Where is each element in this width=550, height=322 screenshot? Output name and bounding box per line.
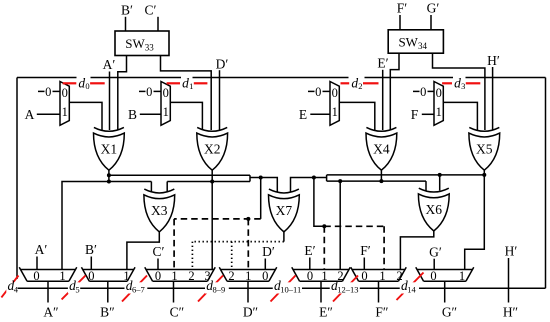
svg-text:X5: X5 — [476, 141, 493, 156]
wire: feedback frame right edge — [545, 78, 547, 289]
junction on right dashed net — [322, 224, 326, 228]
wire D' tap into X2 — [219, 70, 221, 130]
svg-text:6–7: 6–7 — [132, 285, 145, 295]
svg-text:D′: D′ — [262, 244, 275, 259]
svg-text:5: 5 — [75, 285, 79, 295]
wire B' to SW33 — [125, 17, 127, 31]
svg-text:X4: X4 — [373, 141, 390, 156]
select line d1 (red) — [167, 75, 208, 91]
xor gate X3 — [144, 189, 175, 232]
svg-text:G′: G′ — [429, 244, 442, 259]
wire X6 left input — [425, 181, 427, 190]
svg-text:0: 0 — [163, 86, 169, 100]
wire bus to mux E input 2 — [339, 181, 341, 269]
svg-text:14: 14 — [407, 285, 416, 295]
svg-text:1: 1 — [62, 105, 68, 119]
wire E' into mux E input 0 — [309, 258, 311, 270]
svg-text:A′: A′ — [35, 242, 48, 257]
svg-text:0: 0 — [85, 81, 89, 91]
wire: feedback frame left edge — [16, 78, 18, 280]
wire SW33 right output to X2 (net D') — [161, 56, 212, 131]
wire A' tap into X1 — [109, 72, 111, 131]
select slash (red) at output mux 5 — [271, 276, 296, 302]
junction X4 out / lower bus — [379, 179, 383, 183]
wire F into M4 — [422, 113, 434, 115]
svg-text:1: 1 — [379, 269, 385, 283]
dashed wire to mux F input 1 — [383, 226, 385, 269]
junction on left dashed net — [246, 217, 250, 221]
wire D' into mux D input 0 — [264, 259, 266, 270]
svg-text:A: A — [25, 107, 35, 122]
wire tap down (right dashed net) — [314, 178, 324, 227]
select slash (red) at output mux 2 — [62, 276, 86, 300]
svg-text:X7: X7 — [276, 203, 293, 218]
wire X3 output to mux B input 1 — [127, 232, 159, 270]
svg-text:d: d — [182, 75, 189, 90]
wire X4 output — [380, 170, 382, 181]
bus upper line (right) — [327, 174, 485, 176]
mux M2 (feeding X2) — [161, 82, 170, 126]
wire A into M1 — [37, 113, 60, 115]
svg-text:1: 1 — [436, 105, 442, 119]
svg-text:X3: X3 — [151, 203, 168, 218]
svg-text:F′: F′ — [397, 1, 408, 16]
control label d8-9 — [205, 278, 228, 295]
wire M3 output to X4 — [339, 102, 375, 130]
output mux C'' (4:1) — [145, 267, 216, 281]
select line d3 (red) — [442, 75, 480, 91]
svg-text:F: F — [411, 107, 419, 122]
wire SW34 right output to X5 (net H') — [433, 53, 485, 130]
svg-text:1: 1 — [321, 269, 327, 283]
svg-text:2: 2 — [337, 269, 343, 283]
control label d4 — [6, 278, 18, 295]
svg-text:G″: G″ — [442, 305, 457, 320]
xor gate X2 — [197, 127, 228, 170]
svg-text:0: 0 — [420, 85, 426, 99]
wire M4 output to X5 — [443, 102, 477, 130]
wire F' into mux F input 0 — [363, 258, 365, 270]
svg-text:0: 0 — [33, 269, 39, 283]
svg-text:10–11: 10–11 — [280, 285, 301, 295]
control label d5 — [68, 278, 80, 295]
svg-text:0: 0 — [361, 269, 367, 283]
bus lower line (right) — [327, 180, 426, 182]
svg-text:E′: E′ — [304, 243, 315, 258]
junction X1 out / upper bus — [107, 173, 111, 177]
svg-text:X2: X2 — [204, 141, 221, 156]
svg-text:F″: F″ — [375, 305, 388, 320]
junction mux E feed tap — [338, 179, 342, 183]
svg-text:2: 2 — [188, 269, 194, 283]
select slash (red) at output mux 7 — [397, 273, 424, 301]
wire mux C output — [173, 281, 175, 302]
junction X1 out / lower bus — [107, 180, 111, 184]
dotted wire to mux C input 2 — [191, 242, 193, 270]
junction X6 right input tap — [438, 173, 442, 177]
svg-text:1: 1 — [189, 81, 193, 91]
wire mux B output — [107, 281, 109, 302]
control label d10-11 — [273, 278, 302, 295]
wire E' tap into X4 — [382, 70, 384, 130]
wire H' tap into X5 — [492, 67, 494, 130]
svg-text:H″: H″ — [503, 305, 518, 320]
output mux E'' (3:1) — [292, 267, 351, 281]
junction X2 out / lower bus — [210, 180, 214, 184]
wire mux A output — [47, 281, 49, 302]
svg-text:0: 0 — [45, 85, 51, 99]
svg-text:8–9: 8–9 — [213, 285, 226, 295]
dashed wire to mux E input 1 — [323, 226, 325, 269]
bus left cap — [249, 175, 251, 181]
svg-text:A″: A″ — [43, 305, 58, 320]
bus lower line (left) cont. — [167, 181, 250, 183]
svg-text:H′: H′ — [505, 243, 518, 258]
svg-text:C″: C″ — [170, 305, 185, 320]
svg-text:D″: D″ — [243, 305, 258, 320]
svg-text:d: d — [351, 75, 358, 90]
svg-text:12–13: 12–13 — [337, 285, 358, 295]
svg-text:0: 0 — [262, 269, 268, 283]
svg-text:H′: H′ — [487, 53, 500, 68]
output mux D'' (3:1) — [219, 267, 277, 281]
svg-text:D′: D′ — [216, 56, 229, 71]
svg-text:E: E — [299, 107, 307, 122]
wire B' into mux B input 0 — [90, 257, 92, 270]
wire X2 output to mux C input 3 — [211, 170, 213, 269]
junction tap to dashed net (right) — [312, 176, 316, 180]
dotted wire horizontal — [192, 241, 284, 243]
constant 0 into M2 — [139, 90, 146, 92]
output mux B'' (2:1) — [81, 267, 135, 281]
svg-text:0: 0 — [88, 269, 94, 283]
wire G' into mux G input 0 — [433, 259, 435, 270]
svg-text:1: 1 — [245, 269, 251, 283]
svg-text:X6: X6 — [426, 202, 443, 217]
svg-text:E′: E′ — [377, 55, 388, 70]
svg-text:G′: G′ — [427, 1, 440, 16]
svg-text:0: 0 — [315, 85, 321, 99]
output mux F'' (3:1) — [351, 267, 407, 281]
svg-text:X1: X1 — [101, 141, 118, 156]
xor gate X4 — [366, 127, 397, 170]
output mux A'' (2:1) — [19, 267, 77, 281]
wire X7 right input from right bus — [291, 178, 327, 192]
wire X5 output to mux G input 1 — [465, 170, 485, 270]
wire mux E output — [320, 281, 322, 302]
wire X7 output stub — [283, 231, 285, 242]
svg-text:3: 3 — [461, 81, 465, 91]
svg-text:1: 1 — [59, 269, 65, 283]
mux M4 (feeding X5) — [434, 82, 443, 126]
svg-text:B″: B″ — [100, 305, 115, 320]
svg-text:E″: E″ — [319, 305, 333, 320]
wire X3 right input — [166, 182, 168, 192]
wire G' to SW34 — [430, 15, 432, 30]
constant 0 into M4 — [413, 90, 420, 92]
select slash (red) at output mux 6 — [333, 276, 358, 302]
svg-text:C′: C′ — [153, 244, 165, 259]
dotted wire to mux D input 2 — [231, 242, 233, 270]
switch box SW34 — [388, 30, 443, 53]
wire X1 output — [108, 170, 110, 181]
svg-text:1: 1 — [163, 105, 169, 119]
bus lower line (left) from mux A column — [62, 182, 151, 270]
wire mux D output — [247, 281, 249, 302]
wire A' into mux A input 0 — [36, 257, 38, 270]
svg-text:0: 0 — [146, 85, 152, 99]
xor gate X1 — [94, 127, 125, 170]
junction X5 out / upper bus — [482, 173, 486, 177]
svg-text:0: 0 — [307, 269, 313, 283]
svg-text:1: 1 — [459, 269, 465, 283]
wire: feedback frame top — [17, 77, 546, 79]
control label d12-13 — [330, 278, 359, 295]
wire X3 left input — [150, 182, 152, 192]
wire H' to H'' — [508, 258, 510, 303]
svg-text:B: B — [128, 107, 137, 122]
svg-text:0: 0 — [155, 269, 161, 283]
wire F' to SW34 — [399, 15, 401, 30]
dashed wire to mux D input 1 — [247, 219, 249, 270]
svg-text:0: 0 — [62, 86, 68, 100]
control label d6-7 — [125, 278, 147, 295]
mux M1 (A / 0 select d4... feeding X1) — [60, 82, 69, 126]
dashed wire to mux C input 1 — [173, 219, 175, 270]
select slash (red) at output mux 3 — [122, 276, 147, 302]
wire X6 right input — [439, 175, 441, 191]
svg-text:0: 0 — [436, 86, 442, 100]
select slash (red) at output mux 1 — [1, 276, 18, 298]
svg-text:B′: B′ — [85, 242, 97, 257]
svg-text:d: d — [454, 75, 461, 90]
wire mux G output — [444, 281, 446, 302]
svg-text:2: 2 — [228, 269, 234, 283]
svg-text:2: 2 — [358, 81, 362, 91]
mux M3 (feeding X4) — [330, 82, 339, 126]
svg-text:A′: A′ — [103, 57, 116, 72]
wire M1 output to X1 — [69, 102, 102, 130]
xor gate X7 — [269, 189, 300, 232]
xor gate X6 — [418, 188, 449, 231]
xor gate X5 — [469, 127, 500, 170]
select line d0 (red) — [63, 75, 105, 91]
wire mux F output — [378, 281, 380, 302]
dashed wire horizontal (right) — [324, 225, 384, 227]
bus upper line (left) — [109, 174, 250, 176]
svg-text:1: 1 — [171, 269, 177, 283]
bus right cap — [326, 175, 328, 181]
dashed wire horizontal (left) — [174, 218, 261, 220]
control label d14 — [400, 278, 419, 295]
svg-text:0: 0 — [332, 86, 338, 100]
wire E into M3 — [310, 113, 330, 115]
wire B into M2 — [140, 113, 161, 115]
wire C' to SW33 — [157, 17, 159, 31]
wire SW33 left output to X1 (net A') — [118, 56, 127, 131]
wire bus to X7 left input — [250, 178, 277, 192]
wire X6 output to mux F input 2 — [400, 231, 433, 270]
wire tap down (left dashed net) — [260, 178, 262, 219]
switch box SW33 — [115, 31, 169, 56]
svg-text:d: d — [78, 75, 85, 90]
constant 0 into M3 — [308, 90, 315, 92]
wire SW34 left output to X4 (net E') — [390, 53, 399, 130]
wire M2 output to X2 — [170, 102, 202, 130]
svg-text:F′: F′ — [360, 243, 371, 258]
svg-text:4: 4 — [14, 285, 19, 295]
svg-text:0: 0 — [430, 269, 436, 283]
junction tap to dashed net (left) — [259, 176, 263, 180]
wire C' into mux C input 0 — [157, 259, 159, 270]
select slash (red) at output mux 4 — [198, 276, 223, 302]
output mux G'' (2:1) — [416, 267, 474, 281]
svg-text:C′: C′ — [145, 3, 157, 18]
constant 0 into M1 — [38, 90, 45, 92]
control bus line (bottom) — [18, 287, 546, 289]
svg-text:B′: B′ — [121, 3, 133, 18]
svg-text:1: 1 — [332, 105, 338, 119]
select line d2 (red) — [341, 75, 379, 91]
